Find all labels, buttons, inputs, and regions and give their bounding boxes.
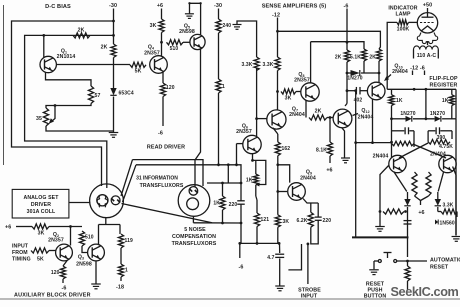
label DRIVER (31, 202, 51, 208)
label 3K q9 (283, 219, 290, 225)
wire T2 bottom rail (193, 222, 241, 224)
wire -6 tick (424, 71, 426, 76)
node -30 (mid) (214, 3, 222, 9)
svg-text:COMPENSATION: COMPENSATION (172, 234, 216, 240)
svg-text:1N560: 1N560 (440, 220, 455, 226)
wire ff cross b (399, 143, 428, 158)
svg-text:AUTOMATIC: AUTOMATIC (430, 258, 460, 264)
lamp base (417, 33, 437, 44)
wire Q1 collector (56, 64, 130, 66)
label AUTOMATIC (430, 258, 460, 264)
node junction (346, 72, 349, 75)
ground ff-right (452, 237, 460, 242)
wire 1K stub bottom (222, 210, 224, 223)
label 120 aux (51, 270, 60, 276)
svg-text:+6: +6 (418, 210, 424, 216)
wire 4.7 to gnd (279, 259, 281, 286)
wire 3.3K ends (438, 207, 457, 217)
wire Q9 emitter rail (303, 199, 318, 204)
wire Q7 base (257, 118, 267, 120)
lamp anode bar (422, 16, 434, 18)
wire 1K ff-right stub (451, 89, 453, 119)
label 4.7 (267, 255, 274, 261)
wire Q7 emitter (273, 128, 278, 142)
wire 2K to Q12 base (327, 117, 333, 119)
label 1 mid (222, 84, 225, 90)
node junction (276, 90, 279, 93)
svg-text:5K: 5K (37, 257, 44, 263)
wire Q8 base (296, 91, 301, 93)
wire 162 down (277, 156, 279, 215)
svg-text:ANALOG SET: ANALOG SET (23, 195, 59, 201)
label 653C4 (119, 91, 134, 97)
svg-text:3.3K: 3.3K (443, 203, 454, 209)
wire Q3 emitter (95, 261, 97, 284)
resistor 3.3K a (254, 57, 259, 71)
label Q4 (148, 45, 154, 51)
svg-text:2N357: 2N357 (144, 51, 160, 57)
node +6 (ff) (418, 210, 424, 216)
label 390 (437, 135, 446, 141)
node junction (307, 243, 310, 246)
label 2N357 aux (48, 238, 64, 244)
svg-text:REGISTER: REGISTER (430, 83, 458, 89)
svg-text:+6: +6 (326, 168, 332, 174)
wire 240 down (218, 33, 220, 79)
transfluxor T1 core (90, 184, 124, 218)
label 2K (101, 45, 108, 51)
svg-text:-12: -12 (272, 13, 280, 19)
wire ff-right base chain (453, 167, 456, 236)
transfluxor T1 aperture B ticks (111, 198, 120, 202)
wire -12 tick (412, 71, 414, 76)
svg-text:RESET: RESET (430, 265, 449, 271)
svg-text:31 INFORMATION: 31 INFORMATION (136, 176, 178, 182)
transistor Q2 2N357 (56, 244, 73, 261)
svg-text:TIMING: TIMING (12, 257, 31, 263)
label RESET auto (430, 265, 449, 271)
svg-text:510: 510 (170, 46, 179, 52)
node junction (371, 141, 374, 144)
node corner b (199, 2, 201, 4)
transfluxor T2 aperture A (189, 187, 198, 196)
node -6 (aux) (62, 286, 67, 292)
wire Q9 collector (278, 165, 290, 183)
label LAMP (395, 12, 411, 18)
resistor 100K (397, 20, 409, 25)
wire trio-c to Q10 (378, 73, 380, 83)
label 220 q9 (323, 218, 332, 224)
svg-text:121: 121 (261, 217, 270, 223)
resistor 2K q12 (309, 115, 327, 120)
resistor 510 aux (79, 231, 84, 246)
resistor 2K trio-c (376, 49, 381, 61)
svg-text:3.3K: 3.3K (242, 62, 253, 68)
node +6 (8.1K) (326, 168, 332, 174)
label 1N270 ff-right (430, 111, 445, 117)
wire ff diode row (392, 118, 457, 120)
label 1N560 (440, 220, 455, 226)
wire pot wiper (52, 106, 56, 122)
node -6 (read driver) (158, 131, 163, 137)
svg-text:57: 57 (95, 93, 101, 99)
transistor Q1 2N1014 (40, 56, 56, 72)
svg-text:301A COLL: 301A COLL (27, 209, 56, 215)
node junction (112, 20, 115, 23)
label 2K q12 (315, 109, 322, 115)
wire 4.7 chain (279, 243, 281, 253)
label 1K ff-right (442, 98, 449, 104)
diode reset-right (435, 192, 441, 206)
label Q2 (53, 232, 59, 238)
wire Q5 collector to gnd (190, 3, 201, 35)
svg-text:-6: -6 (158, 131, 163, 137)
resistor 8.1K (327, 142, 332, 156)
transistor Q9 2N404 (288, 183, 306, 201)
label 110 A-C (417, 53, 437, 59)
label Q6 (242, 124, 248, 130)
resistor 3K q9 (275, 215, 280, 227)
label 1K pot (246, 178, 253, 184)
wire bus upper (133, 160, 204, 186)
node +50 (423, 3, 432, 9)
label 35 (36, 116, 42, 122)
svg-text:2N357: 2N357 (236, 129, 252, 135)
label INPUT strobe (301, 294, 318, 300)
resistor 3.3K b (275, 57, 280, 71)
node +6 (top) (157, 3, 163, 9)
svg-text:8.1K: 8.1K (316, 148, 327, 154)
node junction (42, 34, 45, 37)
resistor 3K aux (32, 224, 49, 229)
node junction (221, 182, 224, 185)
diode reset-left (404, 192, 410, 206)
svg-text:+50: +50 (423, 3, 432, 9)
wire 120 to -6 (162, 97, 164, 127)
resistor 6.2K (308, 212, 313, 227)
wire ff mid drop (425, 89, 427, 119)
svg-text:4.75K: 4.75K (439, 144, 453, 150)
transfluxor T1 aperture B (111, 196, 120, 205)
wire 3K q9 down (277, 227, 279, 243)
wire reset drop (407, 238, 409, 257)
resistor reset-left (383, 209, 404, 214)
svg-text:SeekIC.com: SeekIC.com (391, 285, 459, 299)
wire Q6 base (237, 143, 243, 145)
wire -12 rail (278, 31, 381, 49)
label D-C BIAS (45, 4, 71, 10)
wire to -18 (120, 277, 122, 281)
svg-text:100K: 100K (397, 27, 410, 33)
node junction (378, 72, 381, 75)
svg-text:3.3K: 3.3K (263, 62, 274, 68)
node junction (425, 88, 428, 91)
svg-text:-6: -6 (62, 286, 67, 292)
wire trio-b stub (363, 61, 365, 73)
svg-text:3K: 3K (285, 96, 292, 102)
label 2N404 q10 (392, 69, 408, 75)
wire 121 down (256, 227, 258, 244)
label 3.3K b (263, 62, 274, 68)
label 2K trio-a (335, 55, 342, 61)
wire sense rail (311, 42, 364, 49)
svg-text:3K: 3K (150, 23, 157, 29)
lamp envelope (417, 13, 437, 33)
label Q12 (361, 108, 369, 114)
resistor 2K top (73, 33, 90, 38)
resistor 1K ff-left (389, 95, 394, 106)
label 2N598 aux (76, 262, 92, 268)
label 6.2K (297, 218, 308, 224)
svg-text:1: 1 (222, 84, 225, 90)
svg-text:5K: 5K (135, 69, 142, 75)
resistor 240 (216, 19, 221, 33)
svg-text:120: 120 (166, 85, 175, 91)
label 8.1K (316, 148, 327, 154)
node junction (404, 210, 407, 213)
node junction (217, 163, 220, 166)
wire Q9 base (278, 191, 287, 193)
node junction (112, 34, 115, 37)
svg-text:119: 119 (125, 238, 133, 244)
svg-text:510: 510 (85, 235, 94, 241)
svg-text:2N404: 2N404 (289, 112, 305, 118)
node junction (276, 163, 279, 166)
wire -6 stub (239, 243, 241, 258)
svg-text:FLIP-FLOP: FLIP-FLOP (429, 76, 458, 82)
svg-text:-30: -30 (214, 3, 222, 9)
wire 402 line (347, 90, 367, 92)
svg-text:1: 1 (125, 268, 128, 274)
svg-text:220: 220 (323, 218, 332, 224)
wire Q8 emitter (305, 100, 307, 117)
svg-text:-6: -6 (344, 3, 349, 9)
wire bottom page border (0, 298, 460, 300)
wire Q2 emitter (63, 260, 68, 266)
label 1K T2 (213, 201, 220, 207)
diode glyph 1N560 (435, 220, 438, 225)
svg-text:6.2K: 6.2K (297, 218, 308, 224)
resistor 5K timing (31, 248, 49, 253)
node junction (69, 225, 72, 228)
wire +50 drop (427, 8, 429, 17)
label TRANSFLUXORS (140, 183, 184, 189)
wire outer loop (12, 21, 114, 186)
label 2N404 ff-right (430, 152, 446, 158)
wire pot loop (253, 160, 266, 184)
wire T2 bottom stub (192, 216, 194, 223)
svg-text:1K: 1K (246, 178, 253, 184)
svg-text:SENSE AMPLIFIERS (5): SENSE AMPLIFIERS (5) (262, 3, 327, 9)
svg-text:-30: -30 (109, 3, 117, 9)
resistor 3.3K reset (441, 209, 457, 214)
resistor 390 ff-right (428, 140, 450, 145)
wire +6 drop (161, 9, 163, 20)
node junction (227, 163, 230, 166)
label 5K (135, 69, 142, 75)
capacitor reset (404, 221, 412, 224)
wire gnd to 3.3K (237, 21, 257, 57)
transfluxor T1 aperture A lobes (97, 196, 108, 208)
transformer sides (414, 50, 439, 59)
label 119 (125, 238, 133, 244)
label FROM (12, 250, 28, 256)
wire ff-left base chain (380, 166, 389, 227)
transfluxor T2 aperture B (187, 198, 199, 210)
transfluxor T2 aperture A ticks (189, 189, 198, 193)
label AUXILIARY BLOCK DRIVER (14, 293, 91, 299)
svg-text:5.1K: 5.1K (350, 55, 361, 61)
svg-text:1N270: 1N270 (347, 76, 362, 82)
label Q1 (61, 48, 67, 54)
svg-text:2K: 2K (315, 109, 322, 115)
node junction (276, 30, 279, 33)
wire Q3 collector (99, 244, 100, 247)
svg-text:2N404: 2N404 (373, 154, 389, 160)
svg-text:Q3: Q3 (78, 255, 84, 261)
label READ DRIVER (147, 145, 185, 151)
transistor Q7 2N404 (267, 110, 286, 129)
capacitor 4.7 (275, 254, 284, 257)
node junction (278, 242, 281, 245)
node junction (379, 210, 382, 213)
wire fork top (99, 224, 121, 226)
wire trio-a to diode row (346, 62, 348, 73)
diode 1N270 ff-right (435, 116, 441, 122)
wire 510 to Q5 base (183, 41, 190, 43)
label 2N598 (179, 29, 195, 35)
wire staple (311, 220, 318, 244)
wire bus lower (136, 165, 241, 183)
label 162 (282, 146, 291, 152)
wire button right lead (397, 260, 427, 262)
diode 653C4 (110, 88, 116, 95)
wire diag 1 (121, 160, 133, 196)
label 1N270 ff-left (400, 111, 415, 117)
svg-text:2N598: 2N598 (179, 29, 195, 35)
node junction (255, 117, 258, 120)
resistor 5.1K trio-b (361, 49, 366, 61)
resistor 121 (254, 213, 259, 227)
node junction (251, 159, 254, 162)
ground sense left (233, 25, 242, 30)
svg-text:2K: 2K (369, 55, 376, 61)
svg-text:-6: -6 (239, 265, 244, 271)
wire inner loop (25, 35, 114, 188)
label 5K timing (37, 257, 44, 263)
resistor 1 (unlabeled) (216, 79, 221, 93)
wire ff-right emitter (438, 172, 443, 192)
label Q8 (298, 72, 304, 78)
pushbutton contacts (378, 260, 396, 263)
capacitor 220 q9 (315, 217, 322, 220)
wire reset res down (407, 281, 409, 290)
wire 3K to Q4 (161, 33, 163, 57)
node junction (235, 163, 238, 166)
svg-text:110 A-C: 110 A-C (417, 53, 437, 59)
wire Q10 leader (384, 75, 391, 82)
svg-text:2N404: 2N404 (430, 152, 446, 158)
svg-text:DRIVER: DRIVER (31, 202, 51, 208)
wire 3.3K b down (277, 71, 279, 92)
ground above Q5 (185, 14, 194, 19)
capacitor 402 (356, 87, 360, 95)
label 2N404 q7 (289, 112, 305, 118)
wire Q12 leader (353, 114, 359, 116)
svg-text:1N270: 1N270 (430, 111, 445, 117)
label 510 (170, 46, 179, 52)
label 57 (95, 93, 101, 99)
wire Q5 emitter down (195, 48, 201, 187)
label 5 NOISE (184, 227, 206, 233)
label TRANSFLUXORS 2 (172, 241, 217, 247)
label 5.1K trio-b (350, 55, 361, 61)
svg-text:2N404: 2N404 (300, 176, 316, 182)
svg-text:AUXILIARY BLOCK DRIVER: AUXILIARY BLOCK DRIVER (14, 293, 91, 299)
wire ff top rail (387, 88, 456, 90)
wire -30 to diode (113, 58, 115, 89)
wire ff feed (356, 142, 392, 144)
label 4.75K (439, 144, 453, 150)
transfluxor T2 core (178, 185, 210, 217)
svg-text:162: 162 (282, 146, 291, 152)
node +6 (aux) (5, 225, 11, 231)
wire 8.1K hang (329, 118, 331, 143)
wire to bus (218, 93, 220, 165)
svg-text:35: 35 (36, 116, 42, 122)
label 31 INFORMATION (136, 176, 178, 182)
label 121 (261, 217, 270, 223)
label 1K ff-left (396, 98, 403, 104)
node -18 (116, 285, 124, 291)
diode 1N270 sense (347, 70, 379, 76)
transfluxor T1 aperture A (97, 195, 108, 206)
wire ff cross a (414, 145, 446, 159)
label STROBE (298, 288, 321, 294)
label Q7 (292, 107, 298, 113)
ground button (369, 270, 379, 275)
svg-text:2N404: 2N404 (392, 69, 408, 75)
label 1 (125, 268, 128, 274)
node -6 (sense top) (344, 3, 349, 9)
resistor 119 (118, 234, 123, 248)
label 402 (354, 98, 363, 104)
wire reset res stub (407, 261, 409, 266)
wire Q8 collector riser (310, 42, 312, 83)
svg-text:240: 240 (223, 23, 232, 29)
node -12 -6 (ff) (410, 66, 425, 72)
svg-text:TRANSFLUXORS: TRANSFLUXORS (172, 241, 217, 247)
wire Q6 base drop (236, 144, 238, 165)
label 510 aux (85, 235, 94, 241)
wire 1K ff-left stub (391, 89, 393, 94)
node junction (276, 190, 279, 193)
label 2N1014 (57, 54, 76, 60)
node junction (160, 41, 163, 44)
wire lamp feed (387, 22, 397, 89)
svg-text:2K: 2K (78, 28, 85, 34)
wire 120 to -6 (62, 279, 64, 283)
wire 3K to 510 (49, 226, 82, 228)
ground under 653C4 (109, 133, 119, 138)
label 2N357 q6 (236, 129, 252, 135)
ground strobe (275, 286, 285, 291)
wire reset-left chain (407, 207, 409, 238)
wire 1K stub top (222, 183, 224, 196)
svg-text:120: 120 (51, 270, 60, 276)
wire Q1 base drop (43, 35, 45, 57)
node junction (329, 116, 332, 119)
